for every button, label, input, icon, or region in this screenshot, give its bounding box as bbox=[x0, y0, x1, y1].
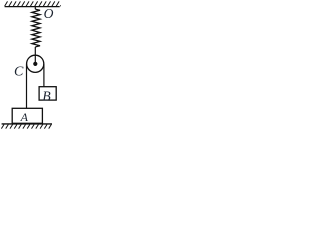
spring coils bbox=[32, 9, 40, 47]
wire: left string from pulley to block A bbox=[26, 64, 28, 109]
block A box bbox=[12, 108, 42, 123]
ground hatching bbox=[1, 125, 51, 129]
pulley axle dot bbox=[33, 62, 37, 66]
ceiling hatching bbox=[5, 1, 61, 6]
svg-text:C: C bbox=[14, 64, 24, 79]
wire: right string from pulley to block B bbox=[43, 64, 45, 87]
pulley circle bbox=[27, 55, 44, 72]
ceiling line bbox=[5, 6, 60, 8]
svg-text:O: O bbox=[44, 6, 54, 21]
ground line bbox=[2, 123, 52, 125]
wire: string from spring to pulley axle bbox=[34, 47, 36, 63]
svg-text:B: B bbox=[42, 88, 50, 103]
spring top stub bbox=[34, 7, 36, 9]
svg-text:A: A bbox=[20, 110, 29, 124]
block B box bbox=[39, 87, 56, 100]
